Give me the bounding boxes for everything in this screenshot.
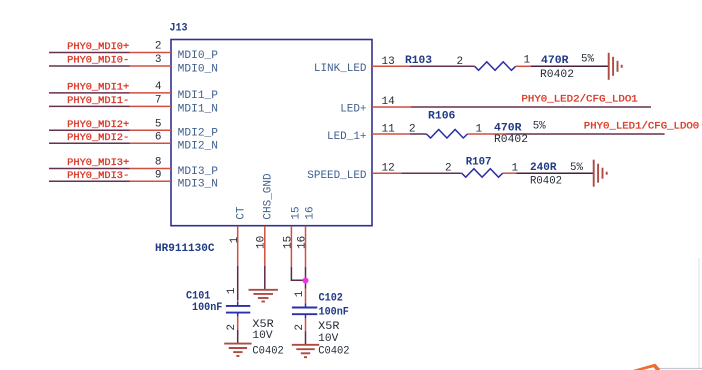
wire PHY0_MDI2+ (red segment) — [130, 129, 172, 131]
wire CHS_GND down — [264, 226, 266, 266]
wire pin14 (red) — [372, 106, 411, 108]
wire PHY0_MDI1+ (red segment) — [130, 92, 172, 94]
svg-text:SPEED_LED: SPEED_LED — [307, 170, 367, 182]
wire pin13 to R103 (red) — [372, 65, 410, 67]
svg-text:MDI2_N: MDI2_N — [178, 141, 218, 153]
wire CT pin down to C101 — [237, 226, 239, 266]
ground for C101 — [224, 344, 251, 356]
svg-text:4: 4 — [155, 81, 162, 93]
svg-text:J13: J13 — [170, 23, 188, 35]
svg-text:5%: 5% — [570, 162, 583, 174]
svg-text:PHY0_MDI0-: PHY0_MDI0- — [67, 56, 129, 67]
svg-text:3: 3 — [155, 54, 162, 66]
svg-text:MDI1_N: MDI1_N — [178, 104, 218, 116]
svg-text:C0402: C0402 — [252, 345, 283, 357]
wire pin16 down to C102 — [305, 226, 307, 267]
svg-text:LED+: LED+ — [340, 104, 366, 116]
svg-text:14: 14 — [382, 96, 396, 108]
svg-text:10V: 10V — [252, 330, 273, 342]
wire PHY0_MDI3- (dark segment) — [49, 180, 130, 182]
svg-text:C0402: C0402 — [318, 346, 349, 358]
svg-text:5: 5 — [155, 119, 162, 131]
svg-text:10V: 10V — [318, 333, 339, 345]
resistor R103 — [475, 62, 516, 71]
wire pin15 down — [290, 226, 292, 267]
pin stub C101 top (blue) — [237, 302, 239, 306]
svg-text:R107: R107 — [466, 157, 492, 169]
wire PHY0_MDI3+ (dark segment) — [49, 168, 130, 170]
wire pin12 to R107 (red) — [372, 172, 402, 174]
wire C102 to ground — [305, 314, 307, 318]
wire CT red tip — [237, 300, 239, 302]
wire PHY0_MDI2+ (dark segment) — [49, 129, 130, 131]
wire PHY0_MDI3- (red segment) — [130, 180, 172, 182]
svg-text:LED_1+: LED_1+ — [327, 131, 367, 143]
wire C102 ground dark tail — [305, 332, 307, 345]
svg-text:PHY0_MDI1+: PHY0_MDI1+ — [67, 82, 129, 93]
svg-text:1: 1 — [229, 236, 241, 243]
svg-text:16: 16 — [305, 206, 317, 219]
wire PHY0_MDI0+ (dark segment) — [49, 52, 130, 54]
ground for CHS_GND — [249, 290, 278, 302]
svg-text:1: 1 — [294, 290, 306, 297]
resistor R107 — [462, 169, 503, 178]
svg-text:MDI1_P: MDI1_P — [178, 90, 219, 102]
wire C101 to ground — [237, 313, 239, 317]
svg-text:2: 2 — [409, 123, 416, 135]
svg-text:MDI3_N: MDI3_N — [178, 179, 218, 191]
svg-text:R106: R106 — [428, 110, 455, 122]
svg-text:PHY0_LED1/CFG_LDO0: PHY0_LED1/CFG_LDO0 — [584, 120, 699, 132]
wire R103 to ground (red) — [516, 65, 531, 67]
svg-text:15: 15 — [283, 236, 295, 249]
svg-text:8: 8 — [155, 157, 162, 169]
svg-text:PHY0_MDI2-: PHY0_MDI2- — [67, 133, 129, 144]
resistor R106 — [427, 130, 468, 139]
svg-text:6: 6 — [155, 132, 162, 144]
svg-text:9: 9 — [155, 170, 162, 182]
wire R106 to label (dark) — [506, 133, 665, 135]
svg-text:R103: R103 — [405, 55, 432, 67]
svg-text:470R: 470R — [494, 122, 522, 134]
ground for R103 (rotated right) — [609, 53, 622, 80]
svg-text:2: 2 — [155, 41, 162, 53]
svg-text:470R: 470R — [541, 55, 569, 67]
wire pin15 corner to junction (dark) — [291, 267, 305, 280]
svg-text:16: 16 — [297, 236, 309, 249]
wire C101 bottom (red) — [237, 317, 239, 330]
wire pin12 to R107 (dark) — [402, 172, 462, 174]
wire pin14 (dark) — [411, 106, 651, 108]
capacitor C101 — [226, 306, 250, 313]
wire CT dark segment — [237, 266, 239, 300]
wire R106 to label (red) — [468, 133, 507, 135]
wire PHY0_MDI0- (dark segment) — [49, 65, 130, 67]
wire C102 bottom (red) — [305, 318, 307, 331]
svg-text:MDI0_P: MDI0_P — [178, 50, 219, 62]
wire PHY0_MDI1- (red segment) — [130, 105, 172, 107]
svg-text:CHS_GND: CHS_GND — [263, 173, 275, 220]
svg-text:2: 2 — [445, 163, 452, 175]
svg-text:2: 2 — [294, 324, 306, 331]
connector J13 body — [171, 40, 372, 226]
wire PHY0_MDI3+ (red segment) — [130, 168, 172, 170]
wire pin16 dark segment through junction — [305, 267, 307, 289]
wire PHY0_MDI0- (red segment) — [130, 65, 172, 67]
svg-text:MDI0_N: MDI0_N — [178, 63, 218, 75]
svg-text:LINK_LED: LINK_LED — [314, 63, 367, 75]
wire R107 to ground (red) — [503, 172, 517, 174]
wire R103 to ground (dark) — [531, 65, 609, 67]
svg-text:PHY0_MDI1-: PHY0_MDI1- — [67, 96, 129, 107]
svg-text:2: 2 — [457, 56, 464, 68]
wire pin11 to R106 (red) — [372, 133, 410, 135]
svg-text:MDI3_P: MDI3_P — [178, 166, 219, 178]
wire CHS_GND dark segment — [264, 266, 266, 290]
svg-text:R0402: R0402 — [540, 69, 574, 81]
svg-text:MDI2_P: MDI2_P — [178, 128, 219, 140]
svg-text:HR911130C: HR911130C — [155, 243, 215, 255]
wire PHY0_MDI1+ (dark segment) — [49, 92, 130, 94]
svg-text:10: 10 — [256, 236, 268, 249]
svg-text:PHY0_MDI3+: PHY0_MDI3+ — [67, 158, 129, 169]
wire pin13 to R103 (dark) — [410, 65, 475, 67]
svg-text:PHY0_LED2/CFG_LDO1: PHY0_LED2/CFG_LDO1 — [521, 94, 637, 106]
svg-text:15: 15 — [291, 206, 303, 219]
wire PHY0_MDI0+ (red segment) — [130, 52, 172, 54]
wire PHY0_MDI1- (dark segment) — [49, 105, 130, 107]
junction dot — [303, 278, 309, 284]
svg-text:CT: CT — [236, 206, 248, 220]
svg-text:R0402: R0402 — [530, 175, 562, 187]
pin stub C102 top (blue) — [305, 303, 307, 307]
wire pin16 red to C102 — [305, 289, 307, 304]
svg-text:100nF: 100nF — [192, 302, 222, 314]
svg-text:2: 2 — [226, 324, 238, 331]
svg-text:240R: 240R — [530, 162, 557, 174]
wire PHY0_MDI2- (red segment) — [130, 142, 172, 144]
svg-text:PHY0_MDI3-: PHY0_MDI3- — [67, 171, 129, 182]
ground for R107 (rotated right) — [594, 160, 607, 187]
svg-text:100nF: 100nF — [319, 307, 349, 319]
svg-text:5%: 5% — [533, 120, 546, 132]
svg-text:X5R: X5R — [318, 321, 340, 333]
ground for C102 — [292, 345, 319, 357]
svg-text:PHY0_MDI0+: PHY0_MDI0+ — [67, 42, 129, 53]
sheet frame horizontal line — [657, 368, 702, 370]
capacitor C102 — [292, 308, 317, 315]
svg-text:5%: 5% — [581, 54, 594, 66]
wire pin11 to R106 (dark) — [410, 133, 427, 135]
svg-text:1: 1 — [226, 287, 238, 294]
wire C101 ground dark tail — [237, 330, 239, 343]
svg-text:1: 1 — [524, 54, 531, 66]
sheet frame vertical line — [698, 258, 700, 369]
svg-text:C102: C102 — [319, 293, 343, 305]
wire PHY0_MDI2- (dark segment) — [49, 142, 130, 144]
svg-text:PHY0_MDI2+: PHY0_MDI2+ — [67, 120, 129, 131]
svg-text:R0402: R0402 — [494, 134, 528, 146]
svg-text:7: 7 — [155, 95, 162, 107]
wire R107 to ground (dark) — [517, 172, 594, 174]
orange cursor shape — [627, 364, 660, 370]
